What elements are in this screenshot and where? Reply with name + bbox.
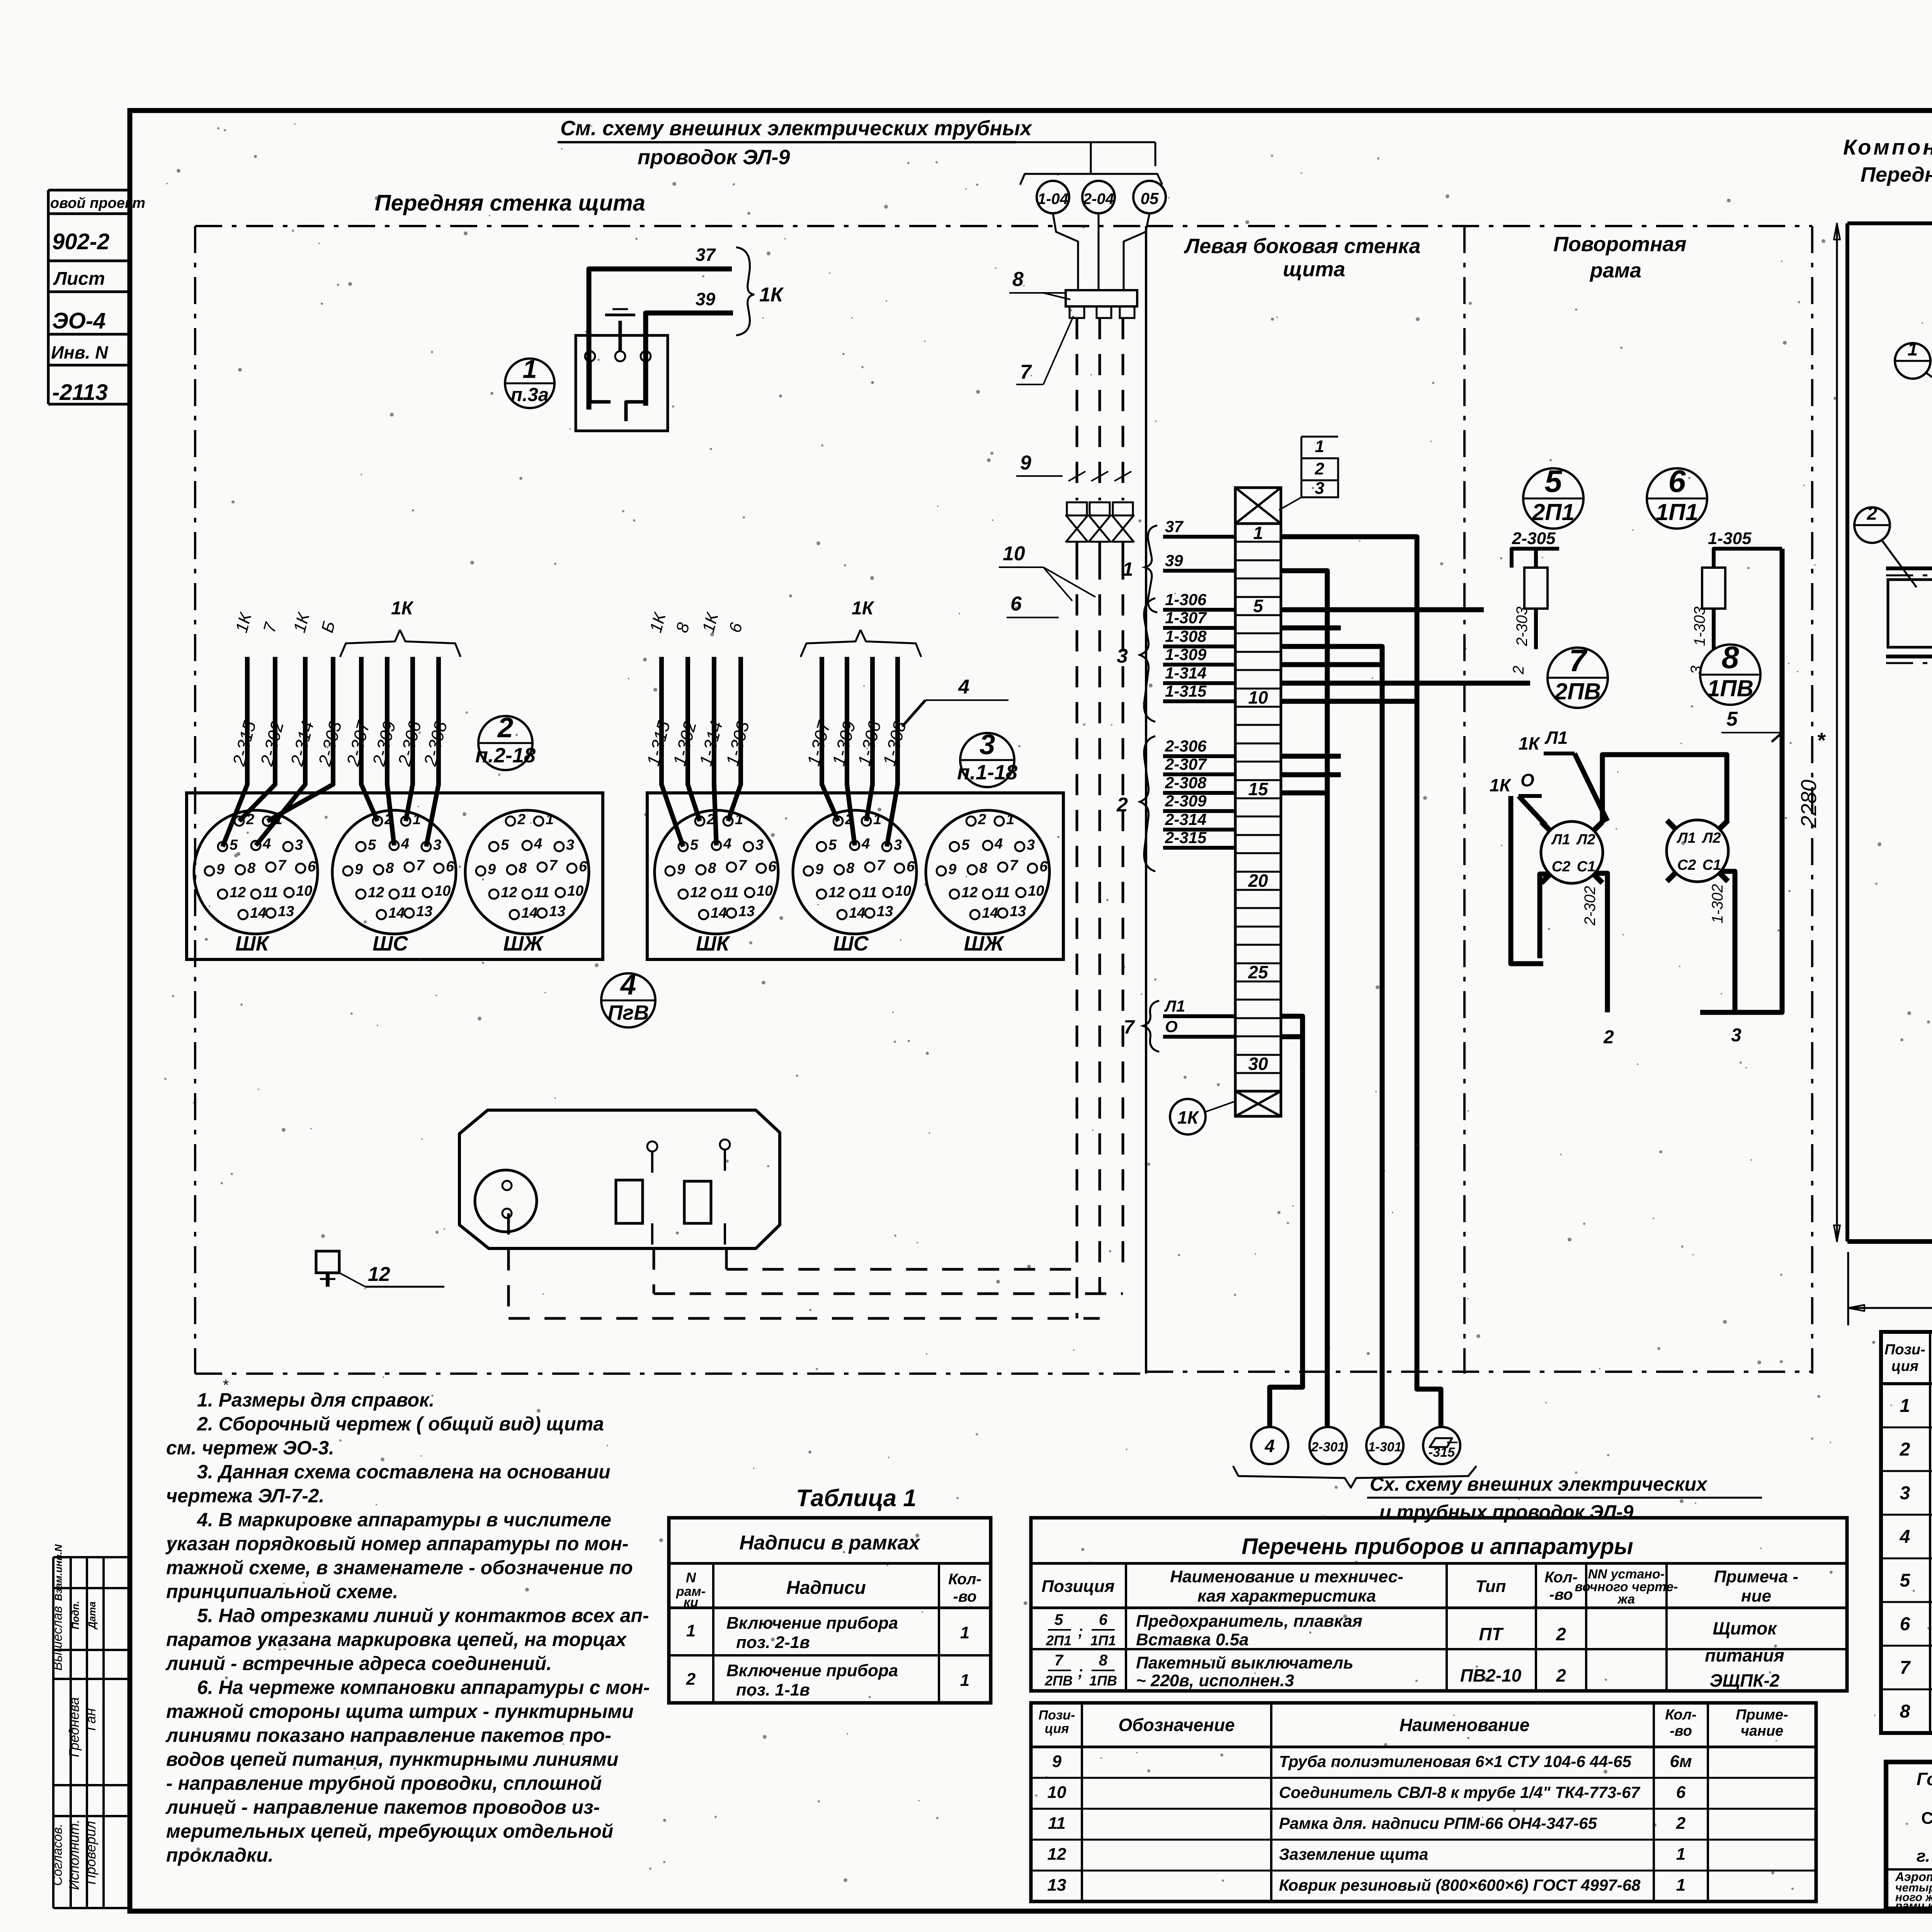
wires to ShS group2 [361, 657, 378, 821]
svg-text:8: 8 [247, 860, 256, 876]
svg-text:5: 5 [828, 837, 837, 853]
svg-text:9: 9 [948, 861, 956, 878]
svg-text:9: 9 [488, 861, 496, 878]
svg-text:5: 5 [501, 837, 509, 853]
svg-text:мерительных цепей, требующ: мерительных цепей, требующих отдельной [166, 1820, 613, 1842]
svg-text:О: О [1520, 770, 1534, 790]
svg-text:4: 4 [861, 836, 870, 852]
table perechen priborov [1031, 1518, 1847, 1691]
panel rect b [684, 1181, 711, 1223]
svg-text:4. В маркировке аппаратуры: 4. В маркировке аппаратуры в числителе [197, 1509, 611, 1531]
svg-text:30: 30 [1248, 1054, 1268, 1074]
pipe circle 1-04 [1037, 181, 1069, 213]
svg-text:39: 39 [1165, 551, 1183, 570]
svg-text:1П1: 1П1 [1656, 499, 1698, 525]
lamp 2LS [1541, 821, 1603, 883]
montage item2 rect [1888, 580, 1932, 647]
svg-text:ЭЩПК-2: ЭЩПК-2 [1710, 1670, 1780, 1690]
svg-text:3: 3 [1900, 1483, 1910, 1503]
svg-text:Приме-: Приме- [1736, 1707, 1788, 1723]
svg-text:-во: -во [953, 1588, 977, 1605]
section bottom dashdot middle [1146, 1371, 1812, 1373]
svg-text:13: 13 [1048, 1876, 1066, 1895]
svg-text:Сх. схему внешних электричес: Сх. схему внешних электрических [1370, 1473, 1708, 1495]
svg-text:5: 5 [1544, 464, 1562, 499]
svg-text:Кол-: Кол- [1544, 1569, 1578, 1586]
svg-text:3: 3 [1315, 479, 1324, 498]
svg-text:8: 8 [386, 860, 394, 876]
svg-text:10: 10 [1248, 687, 1268, 707]
svg-text:11: 11 [534, 884, 549, 901]
callout 7 / 2PV [1548, 648, 1608, 708]
callout 8 / 1PV [1700, 645, 1760, 705]
svg-text:См. схему внешних электричес: См. схему внешних электрических трубных [560, 117, 1032, 140]
svg-text:1К: 1К [1490, 775, 1512, 795]
svg-text:Компоновка аппаратуры с м: Компоновка аппаратуры с монтажной сторон… [1843, 135, 1932, 159]
section divider dashdot right of strip [1463, 226, 1466, 1374]
svg-text:Включение прибора: Включение прибора [726, 1614, 898, 1633]
svg-text:Дата: Дата [86, 1602, 98, 1630]
stubs group 7 (L1,O) [1163, 1014, 1235, 1018]
svg-text:10: 10 [434, 883, 451, 899]
title block [1886, 1762, 1932, 1909]
montage baseline [1847, 1239, 1932, 1244]
svg-text:2-306: 2-306 [1165, 737, 1207, 755]
svg-text:1: 1 [1253, 523, 1263, 543]
svg-text:рами коридора 9×5.2×150м: рами коридора 9×5.2×150м [1895, 1900, 1932, 1912]
svg-text:7: 7 [1010, 857, 1019, 874]
gather bracket bottom [1233, 1466, 1476, 1488]
svg-text:8: 8 [1099, 1652, 1108, 1669]
svg-text:Л1: Л1 [1544, 728, 1568, 748]
svg-text:13: 13 [1010, 903, 1026, 920]
svg-text:12: 12 [828, 884, 845, 901]
svg-text:кая характеристика: кая характеристика [1197, 1587, 1376, 1605]
svg-text:чертежа ЭЛ-7-2.: чертежа ЭЛ-7-2. [166, 1485, 324, 1507]
svg-text:проводок ЭЛ-9: проводок ЭЛ-9 [638, 146, 790, 169]
svg-text:Наименование: Наименование [1400, 1715, 1530, 1735]
svg-text:7: 7 [738, 857, 747, 874]
svg-text:рама: рама [1589, 259, 1641, 282]
callout 6 / 1P1 [1647, 468, 1707, 529]
svg-text:Кол-: Кол- [948, 1571, 981, 1588]
svg-text:Заземление щита: Заземление щита [1279, 1845, 1428, 1863]
svg-text:2: 2 [1510, 666, 1527, 675]
svg-text:12: 12 [690, 884, 706, 901]
svg-text:1-306: 1-306 [1165, 590, 1207, 609]
svg-text:1-301: 1-301 [1368, 1440, 1402, 1454]
svg-text:37: 37 [696, 245, 716, 265]
svg-text:Передняя стенка щита: Передняя стенка щита [375, 190, 645, 216]
svg-text:13: 13 [877, 903, 893, 920]
switch pins [585, 351, 595, 361]
svg-text:С2: С2 [1677, 857, 1696, 873]
terminal strip bottom cross [1235, 1091, 1281, 1116]
connector block item8 [1066, 290, 1137, 306]
svg-text:1-314: 1-314 [1165, 664, 1206, 682]
svg-text:4: 4 [620, 969, 636, 1001]
tube circle 2-301 [1310, 1427, 1347, 1464]
svg-text:5. Над отрезками линий у: 5. Над отрезками линий у контактов всех … [197, 1605, 649, 1626]
svg-text:г. Москва: г. Москва [1917, 1847, 1932, 1866]
svg-text:овой проект: овой проект [50, 195, 145, 211]
svg-text:паратов указана маркировка: паратов указана маркировка цепей, на тор… [166, 1629, 627, 1650]
svg-text:7: 7 [1124, 1016, 1135, 1038]
svg-text:Надписи: Надписи [786, 1578, 866, 1598]
montage callout 1 [1895, 343, 1930, 379]
svg-text:9: 9 [677, 861, 685, 878]
svg-text:1К: 1К [1177, 1107, 1199, 1128]
svg-text:Коврик резиновый (800×600×6): Коврик резиновый (800×600×6) ГОСТ 4997-6… [1279, 1876, 1641, 1894]
svg-text:6: 6 [906, 859, 915, 875]
svg-text:10: 10 [567, 883, 583, 899]
svg-text:ция: ция [1891, 1358, 1918, 1374]
brace group 7 [1143, 1001, 1159, 1052]
svg-text:12: 12 [501, 884, 517, 901]
svg-text:05: 05 [1141, 189, 1159, 207]
svg-text:1-308: 1-308 [1165, 627, 1207, 645]
svg-text:1К: 1К [1519, 733, 1541, 753]
pipes below valves [1076, 542, 1078, 558]
svg-text:1: 1 [1676, 1876, 1685, 1895]
svg-text:11: 11 [723, 884, 738, 901]
svg-text:1-302: 1-302 [1709, 884, 1726, 923]
svg-text:Л1: Л1 [1551, 832, 1570, 848]
svg-text:Таблица 1: Таблица 1 [796, 1485, 917, 1512]
svg-text:Включение прибора: Включение прибора [726, 1661, 898, 1680]
svg-text:6: 6 [1099, 1611, 1108, 1628]
ground symbol item12 [316, 1251, 339, 1273]
svg-text:5: 5 [1054, 1611, 1063, 1628]
pipe route to panel items [509, 1317, 1100, 1320]
svg-text:1: 1 [1122, 558, 1133, 580]
svg-text:ки: ки [684, 1595, 698, 1610]
svg-text:6. На чертеже компановки ап: 6. На чертеже компановки аппаратуры с мо… [197, 1677, 650, 1698]
front panel outline [195, 225, 1144, 227]
svg-text:прокладки.: прокладки. [166, 1844, 274, 1866]
tube circle 1-301 [1366, 1427, 1403, 1464]
svg-text:Инв. N: Инв. N [51, 342, 108, 362]
svg-text:10: 10 [1028, 883, 1044, 899]
svg-text:11: 11 [995, 884, 1010, 901]
tube circle 4 [1251, 1427, 1288, 1464]
svg-text:10: 10 [1048, 1783, 1066, 1802]
dim 2280 [1836, 223, 1838, 1242]
svg-text:Проверил: Проверил [83, 1821, 99, 1885]
svg-text:Л2: Л2 [1701, 830, 1721, 846]
svg-text:тажной стороны щита штрих -: тажной стороны щита штрих - пунктирными [166, 1701, 634, 1722]
callout 5 / 2P1 [1523, 468, 1583, 529]
svg-text:;: ; [1078, 1623, 1083, 1640]
table parts right [1881, 1332, 1932, 1733]
svg-text:5: 5 [1900, 1570, 1911, 1591]
svg-text:Л1: Л1 [1164, 997, 1185, 1015]
svg-text:7: 7 [1569, 643, 1588, 678]
svg-text:2: 2 [1315, 459, 1325, 478]
svg-text:Позиция: Позиция [1041, 1577, 1114, 1596]
svg-text:-315: -315 [1429, 1445, 1455, 1460]
svg-text:6: 6 [579, 859, 587, 875]
svg-text:2: 2 [1116, 794, 1128, 816]
svg-text:1: 1 [1006, 811, 1014, 828]
svg-text:ПТ: ПТ [1479, 1624, 1504, 1644]
svg-text:2-04: 2-04 [1083, 190, 1114, 207]
svg-text:1-303: 1-303 [1691, 607, 1708, 646]
svg-text:1К: 1К [391, 598, 414, 619]
svg-text:4: 4 [401, 836, 409, 852]
connector ШК [655, 810, 778, 934]
svg-text:13: 13 [738, 903, 755, 920]
svg-text:Греднева: Греднева [66, 1697, 82, 1757]
connector ШС [793, 810, 917, 934]
svg-text:Исполнит.: Исполнит. [66, 1820, 82, 1890]
svg-text:8: 8 [1900, 1701, 1910, 1722]
svg-text:14: 14 [849, 905, 865, 921]
svg-text:11: 11 [1048, 1814, 1066, 1833]
svg-text:Л2: Л2 [1576, 832, 1595, 848]
wire rows group2 [1281, 754, 1341, 759]
brace 1K group1 [801, 630, 861, 657]
svg-text:О: О [1165, 1017, 1178, 1036]
svg-text:тажной схеме, в знаменателе: тажной схеме, в знаменателе - обозначени… [166, 1557, 633, 1578]
svg-text:1-04: 1-04 [1037, 190, 1068, 207]
svg-text:Вставка 0.5а: Вставка 0.5а [1136, 1630, 1249, 1649]
svg-text:водов цепей питания, пункт: водов цепей питания, пунктирными линиями [166, 1748, 618, 1770]
svg-text:39: 39 [696, 289, 716, 309]
svg-text:2П1: 2П1 [1532, 499, 1575, 525]
svg-text:2-303: 2-303 [1514, 607, 1531, 646]
stub 37 [1163, 535, 1235, 539]
svg-text:ЭО-4: ЭО-4 [52, 308, 105, 333]
svg-text:щита: щита [1283, 258, 1345, 281]
svg-text:6: 6 [1039, 859, 1048, 875]
svg-text:12: 12 [368, 884, 384, 901]
svg-text:6м: 6м [1670, 1752, 1692, 1771]
svg-text:1ПВ: 1ПВ [1089, 1673, 1117, 1689]
svg-text:2: 2 [1900, 1439, 1910, 1460]
svg-text:Л1: Л1 [1676, 830, 1696, 846]
svg-text:Предохранитель, плавкая: Предохранитель, плавкая [1136, 1612, 1362, 1631]
svg-text:С1: С1 [1577, 859, 1596, 875]
svg-text:1: 1 [546, 811, 554, 828]
wire 37 [589, 269, 732, 410]
svg-text:8: 8 [979, 860, 988, 876]
svg-text:4: 4 [1900, 1527, 1910, 1547]
bundle dashed pipes [1076, 318, 1078, 500]
panel top pins [647, 1141, 657, 1151]
stubs group 2 (2-306..2-315) [1163, 754, 1235, 758]
svg-text:12: 12 [961, 884, 978, 901]
svg-text:Щиток: Щиток [1713, 1618, 1777, 1638]
svg-text:2: 2 [497, 712, 514, 743]
svg-text:5: 5 [961, 837, 970, 853]
svg-text:принципиальной схеме.: принципиальной схеме. [166, 1581, 398, 1602]
meter circle [475, 1170, 537, 1232]
svg-text:2-315: 2-315 [1165, 828, 1207, 847]
svg-text:Пакетный выключатель: Пакетный выключатель [1136, 1653, 1354, 1672]
svg-text:Лист: Лист [53, 269, 105, 289]
svg-text:7: 7 [1054, 1652, 1064, 1669]
svg-text:;: ; [1078, 1663, 1083, 1680]
svg-text:2-307: 2-307 [1165, 755, 1207, 773]
svg-text:9: 9 [1052, 1752, 1062, 1771]
svg-text:8: 8 [846, 860, 855, 876]
svg-text:7: 7 [416, 857, 425, 874]
bus right vertical [1700, 549, 1782, 1012]
svg-text:11: 11 [862, 884, 877, 901]
bundle leads [1053, 213, 1078, 251]
svg-text:1: 1 [413, 811, 421, 828]
valves item6 [1067, 502, 1087, 515]
svg-text:линией - направление пакет: линией - направление пакетов проводов из… [165, 1796, 600, 1818]
wire rows group3 [1281, 607, 1484, 612]
switch inner wiring [590, 361, 611, 402]
svg-text:ШС: ШС [833, 932, 869, 955]
svg-text:см. чертеж ЭО-3.: см. чертеж ЭО-3. [166, 1437, 334, 1459]
svg-text:5: 5 [230, 837, 238, 853]
svg-text:3: 3 [566, 837, 574, 853]
svg-text:ШЖ: ШЖ [964, 932, 1005, 955]
svg-text:12: 12 [368, 1263, 390, 1286]
wires to ShS group1 [822, 657, 838, 821]
svg-text:- направление трубной про: - направление трубной проводки, сплошной [166, 1772, 602, 1794]
svg-text:3: 3 [433, 837, 441, 853]
svg-text:питания: питания [1705, 1645, 1784, 1665]
svg-text:9: 9 [216, 861, 224, 878]
svg-text:-во: -во [1549, 1586, 1573, 1603]
svg-text:14: 14 [250, 905, 266, 921]
svg-text:~ 220в, исполнен.3: ~ 220в, исполнен.3 [1136, 1671, 1294, 1690]
section divider dashdot rotating frame [1811, 226, 1813, 1374]
svg-text:7: 7 [549, 857, 558, 874]
svg-text:2: 2 [1556, 1665, 1566, 1685]
svg-text:1-307: 1-307 [1165, 609, 1207, 627]
svg-text:2: 2 [1603, 1027, 1614, 1048]
svg-text:С2: С2 [1552, 859, 1571, 875]
svg-text:2П1: 2П1 [1046, 1633, 1071, 1648]
svg-text:Тип: Тип [1476, 1577, 1506, 1596]
brace 1K [736, 247, 754, 335]
svg-text:поз. 1-1в: поз. 1-1в [736, 1680, 810, 1699]
svg-text:2280: 2280 [1796, 780, 1821, 828]
stub 39 [1163, 569, 1235, 573]
montage rail 1 [1886, 566, 1932, 570]
svg-text:3: 3 [894, 837, 902, 853]
svg-text:2-314: 2-314 [1165, 810, 1206, 828]
svg-text:Вышеслав: Вышеслав [50, 1606, 65, 1670]
svg-text:2-309: 2-309 [1165, 792, 1207, 810]
wire row1 to riser [1281, 537, 1441, 1428]
connector ШЖ [926, 810, 1049, 934]
svg-text:Наименование и техничес-: Наименование и техничес- [1170, 1567, 1403, 1586]
callout 4 / PgV [601, 973, 655, 1027]
svg-text:5: 5 [368, 837, 376, 853]
svg-text:9: 9 [815, 861, 823, 878]
svg-text:ПВ2-10: ПВ2-10 [1460, 1665, 1522, 1685]
pipe circle 2-04 [1082, 181, 1115, 213]
svg-text:Соединитель СВЛ-8 к трубе 1/: Соединитель СВЛ-8 к трубе 1/4" ТК4-773-6… [1279, 1783, 1640, 1801]
svg-text:20: 20 [1248, 871, 1268, 891]
svg-text:14: 14 [711, 905, 727, 921]
svg-text:СОЮЗВОДОКАНАЛПРОЕКТ: СОЮЗВОДОКАНАЛПРОЕКТ [1921, 1809, 1932, 1828]
svg-text:5: 5 [690, 837, 699, 853]
svg-text:1: 1 [1900, 1396, 1910, 1416]
svg-text:Кол-: Кол- [1665, 1707, 1696, 1723]
wires to ShK group1 [662, 657, 683, 847]
svg-text:14: 14 [388, 905, 405, 921]
svg-text:3: 3 [1027, 837, 1035, 853]
svg-text:2ПВ: 2ПВ [1554, 679, 1601, 704]
wire lamp1 to bus [1602, 755, 1727, 823]
svg-text:6: 6 [446, 859, 454, 875]
svg-text:1К: 1К [852, 598, 875, 619]
panel rect a [616, 1180, 643, 1223]
svg-text:7: 7 [877, 857, 886, 874]
switch item 1K box [576, 335, 668, 431]
terminal strip item1 [1235, 488, 1281, 524]
svg-text:6: 6 [1676, 1783, 1686, 1802]
svg-text:14: 14 [521, 905, 537, 921]
stubs group 3 (1-306..1-315) [1163, 608, 1235, 612]
svg-text:4: 4 [1264, 1436, 1275, 1456]
svg-text:7: 7 [1900, 1658, 1911, 1678]
svg-text:1К: 1К [759, 284, 784, 306]
svg-text:Госстрой .: Госстрой . [1917, 1769, 1932, 1789]
table nadpisi v ramkah [669, 1518, 991, 1703]
svg-text:2: 2 [978, 811, 986, 828]
connector ШЖ [465, 810, 589, 934]
svg-text:ция: ция [1045, 1721, 1069, 1736]
montage callout 2 [1854, 507, 1890, 543]
svg-text:*: * [222, 1377, 229, 1394]
svg-text:10: 10 [895, 883, 911, 899]
svg-text:Передняя стенка: Передняя стенка [1861, 163, 1932, 186]
svg-text:8: 8 [519, 860, 527, 876]
brace group 3 [1140, 598, 1155, 722]
bundle gather bracket [1020, 174, 1162, 185]
svg-text:п.3а: п.3а [511, 384, 549, 405]
svg-text:5: 5 [1726, 708, 1738, 730]
svg-text:ШК: ШК [235, 932, 270, 955]
svg-text:1: 1 [873, 811, 881, 828]
svg-text:ШК: ШК [696, 932, 731, 955]
svg-text:10: 10 [757, 883, 773, 899]
panel cutout octagon [459, 1110, 780, 1248]
svg-text:2-302: 2-302 [1582, 886, 1599, 926]
svg-text:линиями показано направлен: линиями показано направление пакетов про… [165, 1725, 611, 1746]
wires to ShK group2 [223, 657, 247, 847]
svg-text:и трубных проводок ЭЛ-9: и трубных проводок ЭЛ-9 [1379, 1501, 1634, 1523]
fuse 2P1 item5 [1524, 568, 1548, 609]
svg-text:ШС: ШС [372, 932, 408, 955]
svg-text:N: N [686, 1570, 696, 1585]
svg-text:1: 1 [960, 1623, 969, 1642]
svg-text:1: 1 [522, 355, 537, 384]
svg-text:3: 3 [980, 729, 995, 760]
table perechen part2 [1031, 1703, 1816, 1901]
svg-text:7: 7 [278, 857, 287, 874]
connector group panel 1 (items p.1-18) [647, 793, 1063, 959]
svg-text:11: 11 [263, 884, 278, 901]
svg-text:2: 2 [1556, 1624, 1566, 1644]
svg-text:ШЖ: ШЖ [503, 932, 544, 955]
svg-text:Ган: Ган [83, 1708, 99, 1731]
svg-text:Подп.: Подп. [70, 1601, 81, 1629]
fuse 1P1 item6 [1702, 568, 1725, 609]
svg-text:6: 6 [1900, 1614, 1910, 1634]
svg-text:линий - встречные адреса: линий - встречные адреса соединений. [165, 1653, 552, 1674]
wire lamp1 bottom [1595, 873, 1607, 1012]
